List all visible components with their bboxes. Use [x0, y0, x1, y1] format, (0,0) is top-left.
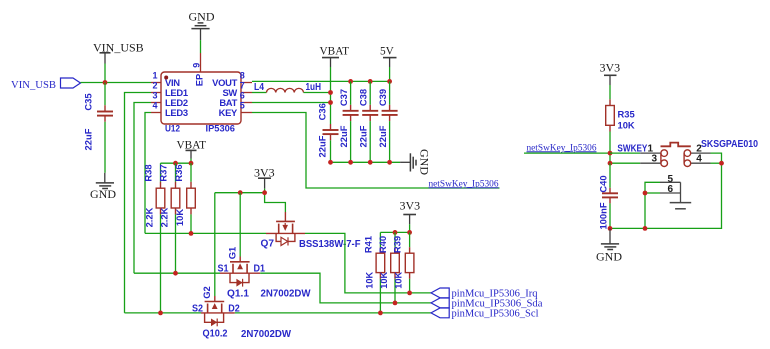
- wire 3V3 to Q7 gate: [265, 193, 286, 212]
- wire G2 column: [214, 193, 216, 296]
- junction bus/G1: [238, 190, 243, 195]
- transistor Q1.1 2N7002DW: [218, 247, 312, 300]
- wire SWKEY pin1: [610, 152, 640, 154]
- svg-text:VIN_USB: VIN_USB: [11, 79, 56, 91]
- pin 8 VOUT: [212, 70, 252, 88]
- wire Q7 drain to Irq: [305, 233, 431, 293]
- junction R40/Sda: [393, 301, 398, 306]
- junction VOUT/C38: [368, 79, 373, 84]
- junction bus/C36: [328, 160, 333, 165]
- svg-text:netSwKey_Ip5306: netSwKey_Ip5306: [429, 178, 499, 189]
- ground GND (above U12, flipped): [189, 10, 215, 41]
- svg-text:10K: 10K: [365, 272, 375, 289]
- junction R39/Irq: [407, 291, 412, 296]
- svg-text:LED3: LED3: [165, 107, 188, 118]
- svg-text:1: 1: [152, 70, 157, 80]
- junction bus/R37: [173, 161, 178, 166]
- wire C35 top: [104, 83, 106, 106]
- power flag 3V3 (left): [254, 166, 275, 189]
- wire BAT row: [252, 102, 331, 104]
- junction bus/C38: [368, 160, 373, 165]
- svg-text:GND: GND: [189, 10, 215, 24]
- svg-text:10K: 10K: [379, 272, 389, 289]
- resistor R36 10K: [173, 163, 195, 226]
- pin 4 LED3: [151, 100, 188, 118]
- svg-text:SKSGPAE010: SKSGPAE010: [701, 139, 758, 150]
- wire D2 to Scl: [235, 312, 431, 314]
- svg-text:EP: EP: [193, 74, 204, 87]
- pin 3 LED2: [151, 90, 188, 108]
- svg-text:2N7002DW: 2N7002DW: [241, 329, 292, 340]
- svg-text:3: 3: [152, 90, 157, 100]
- capacitor C37 22uF: [338, 81, 359, 162]
- junction netSwKey/R35: [608, 151, 613, 156]
- pin 5 KEY: [219, 100, 252, 118]
- svg-text:C38: C38: [358, 89, 369, 106]
- svg-text:S1: S1: [218, 264, 229, 275]
- resistor R40 10K: [377, 232, 399, 288]
- wire VBAT stem: [190, 159, 192, 164]
- svg-text:8: 8: [240, 70, 245, 80]
- ground GND (below C35): [90, 173, 116, 201]
- capacitor C38 22uF: [358, 81, 379, 162]
- svg-text:R35: R35: [618, 109, 635, 120]
- svg-text:3V3: 3V3: [400, 199, 421, 213]
- capacitor C39 22uF: [377, 81, 398, 162]
- port VIN_USB: [11, 78, 81, 91]
- wire netSwKey right: [524, 152, 610, 154]
- wire 5V stem: [389, 67, 391, 81]
- svg-text:10K: 10K: [394, 272, 404, 289]
- svg-text:22uF: 22uF: [83, 128, 94, 150]
- wire 3V3 to R35: [609, 85, 611, 99]
- power flag 3V3 (middle): [400, 199, 421, 225]
- port pinMcu_IP5306_Sda: [431, 298, 543, 309]
- capacitor C36 22uF: [317, 103, 339, 157]
- pin 9 EP: [191, 53, 204, 86]
- junction R37/S1 wire: [173, 271, 178, 276]
- wire KEY to netSwKey: [252, 113, 500, 189]
- wire SW to L4: [252, 92, 267, 94]
- resistor R35 10K: [606, 99, 635, 131]
- svg-text:GND: GND: [417, 149, 431, 175]
- svg-text:GND: GND: [596, 250, 622, 264]
- svg-text:1uH: 1uH: [306, 82, 322, 93]
- transistor Q10.2 2N7002DW: [192, 286, 292, 340]
- wire R35 bottom: [609, 132, 611, 164]
- junction bus/R39: [407, 230, 412, 235]
- junction bus/3V3: [262, 190, 267, 195]
- resistor R37 2.2K: [158, 163, 180, 227]
- wire pin5 stub: [645, 182, 660, 228]
- svg-text:R39: R39: [392, 236, 403, 253]
- junction R38/S2 wire: [158, 311, 163, 316]
- wire VIN_USB power stem: [104, 64, 106, 83]
- svg-text:S2: S2: [192, 303, 203, 314]
- wire LED1 (pin2 to S2 column): [125, 93, 152, 313]
- wire LED2/R37 to S1: [134, 272, 220, 274]
- svg-text:100nF: 100nF: [597, 202, 608, 229]
- wire R41-R39 top bus: [380, 231, 409, 233]
- junction bus/R40: [393, 230, 398, 235]
- wire pin9 to GND: [200, 40, 202, 53]
- svg-text:9: 9: [191, 63, 201, 68]
- wire R37 bottom: [175, 214, 177, 273]
- pin 6 BAT: [219, 90, 252, 108]
- junction VOUT/C37: [348, 79, 353, 84]
- switch frame pins 5 6: [660, 174, 691, 209]
- svg-text:22uF: 22uF: [338, 125, 349, 147]
- svg-text:R41: R41: [363, 236, 374, 253]
- junction bus/R36/VBAT: [189, 161, 194, 166]
- wire R36 bottom: [190, 214, 192, 233]
- wire pin2/pin4 right rail: [610, 153, 722, 228]
- svg-text:G2: G2: [201, 286, 212, 299]
- svg-text:BSS138W-7-F: BSS138W-7-F: [299, 239, 361, 250]
- switch SWKEY1 SKSGPAE010: [617, 139, 758, 167]
- wire resistor top bus: [161, 162, 192, 164]
- wire R39 bottom: [409, 279, 411, 293]
- wire pin6 stub: [645, 192, 660, 194]
- wire R41 bottom: [379, 279, 381, 313]
- svg-text:22uF: 22uF: [358, 125, 369, 147]
- junction VIN_USB/C35: [103, 80, 108, 85]
- wire C40 top: [609, 163, 611, 188]
- svg-text:C37: C37: [338, 89, 349, 106]
- wire LED3 (pin4 to Q7 column): [145, 113, 151, 234]
- ground GND (right): [596, 228, 622, 263]
- junction bus/C39: [387, 160, 392, 165]
- wire C35 bottom: [104, 122, 106, 173]
- inductor L4 1uH: [254, 82, 321, 93]
- port pinMcu_IP5306_Irq: [431, 288, 538, 299]
- power flag VBAT (top): [320, 46, 350, 68]
- junction frame/bottom rail: [643, 226, 648, 231]
- wire LED3/R36 to Q7 source: [145, 232, 266, 234]
- wire R40 bottom: [394, 279, 396, 303]
- junction pin6/rail: [643, 191, 648, 196]
- svg-text:netSwKey_Ip5306: netSwKey_Ip5306: [527, 142, 597, 153]
- ground GND (rotated, right of bus): [400, 149, 431, 175]
- svg-text:VBAT: VBAT: [320, 46, 350, 58]
- wire D1 to Sda: [260, 273, 431, 303]
- wire SWKEY pin3: [610, 162, 640, 164]
- svg-text:2N7002DW: 2N7002DW: [261, 289, 312, 300]
- svg-text:pinMcu_IP5306_Scl: pinMcu_IP5306_Scl: [452, 308, 539, 319]
- wire LED1/R38 to S2: [125, 312, 202, 314]
- port pinMcu_IP5306_Scl: [431, 308, 539, 319]
- svg-text:U12: U12: [165, 124, 180, 135]
- power flag 5V: [380, 46, 397, 68]
- wire C36 bottom: [330, 140, 332, 162]
- resistor R39 10K: [392, 232, 414, 288]
- svg-text:2.2K: 2.2K: [144, 207, 155, 227]
- svg-text:5V: 5V: [380, 46, 395, 58]
- capacitor C40 100nF: [597, 175, 618, 229]
- power flag 3V3 (right): [600, 61, 621, 86]
- junction bus/C37: [348, 160, 353, 165]
- svg-text:Q1.1: Q1.1: [227, 289, 249, 300]
- power flag VIN_USB (top): [93, 41, 144, 64]
- pin 1 VIN: [151, 70, 180, 88]
- junction L4/VBAT: [328, 90, 333, 95]
- svg-text:10K: 10K: [174, 209, 185, 226]
- transistor Q7 BSS138W-7-F: [261, 212, 361, 250]
- svg-text:10K: 10K: [618, 120, 635, 131]
- power flag VBAT (middle): [177, 140, 207, 159]
- svg-text:22uF: 22uF: [377, 125, 388, 147]
- svg-text:5: 5: [668, 174, 674, 185]
- svg-text:7: 7: [240, 80, 245, 90]
- svg-text:C39: C39: [377, 89, 388, 106]
- svg-text:22uF: 22uF: [317, 135, 328, 157]
- pin 2 LED1: [151, 80, 188, 98]
- wire capacitor ground bus: [331, 161, 401, 163]
- wire 3V3 gate bus: [215, 192, 265, 194]
- svg-text:6: 6: [240, 90, 245, 100]
- junction pin3 row: [608, 161, 613, 166]
- svg-text:IP5306: IP5306: [206, 124, 236, 135]
- svg-text:2.2K: 2.2K: [159, 207, 170, 227]
- svg-text:4: 4: [152, 100, 157, 110]
- svg-text:R40: R40: [377, 236, 388, 253]
- junction R41/Scl: [378, 311, 383, 316]
- svg-text:G1: G1: [226, 247, 237, 260]
- junction pin4/rail: [719, 161, 724, 166]
- svg-text:R38: R38: [143, 164, 154, 181]
- svg-text:C36: C36: [317, 103, 328, 120]
- wire VBAT column: [330, 67, 332, 124]
- svg-text:Q7: Q7: [261, 239, 275, 250]
- wire VIN row: [81, 82, 152, 84]
- svg-text:2: 2: [152, 80, 157, 90]
- junction R36/Q7 wire: [189, 231, 194, 236]
- svg-text:C40: C40: [597, 175, 608, 192]
- svg-text:C35: C35: [83, 93, 94, 110]
- svg-text:GND: GND: [90, 187, 116, 201]
- svg-text:R36: R36: [173, 164, 184, 181]
- wire pin4 stub: [711, 162, 722, 164]
- wire LED2 (pin3 to S1 column): [134, 103, 151, 274]
- svg-text:KEY: KEY: [219, 107, 238, 118]
- op-amp U12 IP5306 box: [161, 72, 241, 135]
- wire C40 bottom: [609, 203, 611, 228]
- junction VOUT/5V: [387, 79, 392, 84]
- wire L4 to VBAT column: [304, 92, 331, 94]
- resistor R41 10K: [363, 232, 385, 288]
- wire 3V3 stem: [264, 189, 266, 193]
- capacitor C35 22uF: [83, 93, 114, 150]
- svg-text:3V3: 3V3: [600, 61, 621, 75]
- svg-text:5: 5: [240, 100, 245, 110]
- svg-text:R37: R37: [158, 164, 169, 181]
- wire R38 bottom: [160, 214, 162, 313]
- pin 7 SW: [222, 80, 252, 98]
- wire 3V3 stem (middle): [409, 224, 411, 232]
- wire G1 column: [239, 193, 241, 257]
- junction BAT/VBAT: [328, 100, 333, 105]
- resistor R38 2.2K: [143, 163, 165, 227]
- junction C40/bottom rail: [608, 226, 613, 231]
- svg-text:L4: L4: [254, 82, 264, 93]
- svg-text:Q10.2: Q10.2: [203, 328, 228, 339]
- wire VOUT row: [252, 80, 390, 82]
